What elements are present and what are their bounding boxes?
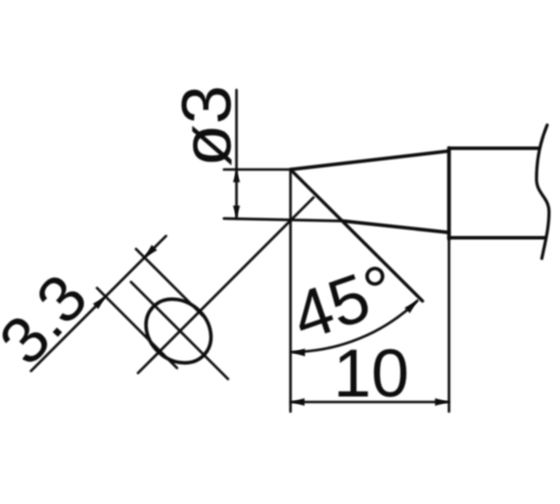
break squiggle bbox=[537, 125, 550, 259]
arrowhead 10 right bbox=[435, 398, 449, 406]
arrowhead o3 down bbox=[233, 206, 240, 218]
svg-text:10: 10 bbox=[333, 336, 409, 412]
tip top profile line bbox=[291, 151, 450, 170]
arrowhead o3 up bbox=[233, 170, 240, 182]
dim o3 dimension line bbox=[235, 90, 238, 218]
tip bottom profile line bbox=[343, 221, 449, 233]
svg-text:3.3: 3.3 bbox=[0, 260, 101, 378]
shank top line bbox=[449, 146, 539, 150]
bevel face ellipse bbox=[133, 286, 224, 376]
dim 10 right extension line bbox=[448, 239, 451, 412]
dim 3.3 extension line 2 bbox=[136, 249, 203, 316]
dim 10 dimension line bbox=[291, 401, 450, 404]
dim 45deg arc bbox=[292, 301, 418, 352]
dim 10 left extension line (vertical from vertex) bbox=[289, 170, 292, 412]
ellipse cross diagonal bbox=[131, 282, 228, 379]
shank bottom line bbox=[449, 236, 546, 240]
arrowhead 10 left bbox=[291, 398, 305, 406]
arrowhead arc lower (points left) bbox=[291, 349, 305, 357]
svg-text:ø3: ø3 bbox=[168, 85, 246, 167]
dim 3.3 extension line 1 bbox=[97, 288, 177, 368]
arrowhead 3.3 upper (points down-left) bbox=[145, 245, 158, 258]
dim o3 bottom extension line bbox=[224, 219, 343, 222]
arrowhead 3.3 lower (points up-right) bbox=[93, 297, 106, 310]
tip axis centerline bbox=[138, 198, 314, 374]
dim 3.3 dimension line bbox=[31, 236, 166, 371]
dim o3 top extension line bbox=[224, 168, 291, 171]
bevel cut edge 45deg line (extended for angle dimension) bbox=[291, 170, 423, 302]
shank shoulder bbox=[447, 148, 451, 239]
arrowhead arc upper (points up-right) bbox=[405, 301, 418, 313]
